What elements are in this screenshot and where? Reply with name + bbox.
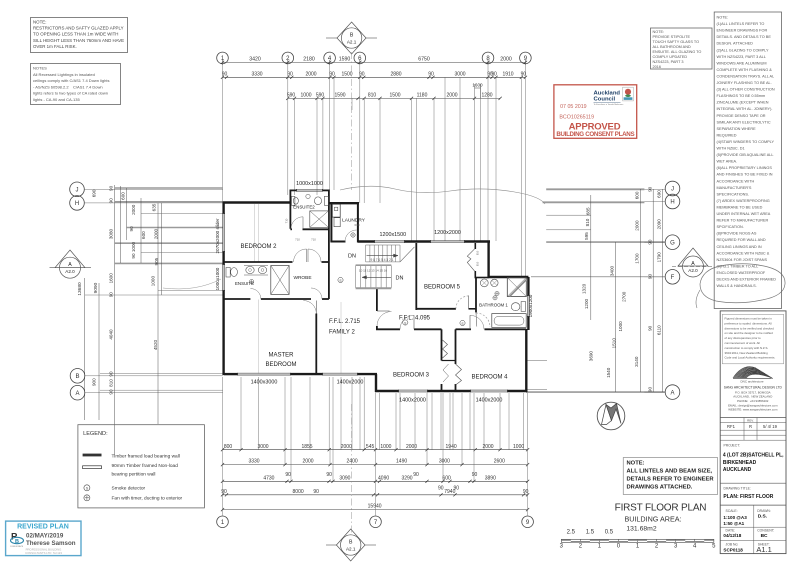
revised plan stamp [6,521,81,556]
wall bottom bedroom4 bedroom3 [376,390,399,392]
bottom dimension row 3 [223,480,528,482]
svg-text:COMPLETE WITH FLASHING &: COMPLETE WITH FLASHING & [717,68,773,72]
svg-text:800: 800 [224,444,233,450]
ensuite2 cabinet [324,196,328,205]
svg-text:1900x1200: 1900x1200 [528,294,533,317]
window 1400x3000 master [237,372,291,374]
interior wall wrobe right [328,242,330,300]
grid bubble B left [70,369,85,384]
svg-text:810: 810 [368,93,377,99]
svg-text:DATE:: DATE: [726,529,736,533]
svg-text:WET AREA.: WET AREA. [717,160,738,164]
svg-text:Figured dimensions must be tak: Figured dimensions must be taken in [725,317,773,321]
laundry wall right [357,203,359,242]
svg-text:NOTES: NOTES [33,66,47,71]
grid bubble H right [665,194,680,209]
svg-text:9090: 9090 [93,282,99,293]
laundry fan [351,233,355,237]
window 1400x2000 bedroom4 [470,389,508,391]
svg-text:3000: 3000 [257,444,268,450]
interior wall ensuite wrobe bottom [224,298,251,300]
note box lintels list [714,12,781,309]
svg-text:preference to scaled dimensio: preference to scaled dimensions. All [725,321,772,325]
svg-text:2600: 2600 [494,459,505,465]
svg-text:SANG ARCHITECTURAL DESIGN LTD: SANG ARCHITECTURAL DESIGN LTD [724,386,783,390]
laundry tub [332,204,340,217]
svg-text:(5)PROVIDE GIB AQUALINE ALL: (5)PROVIDE GIB AQUALINE ALL [717,153,774,157]
svg-text:SPCIFICATION.: SPCIFICATION. [717,225,744,229]
exterior wall right lower [525,329,527,392]
exterior wall top bedroom2 [223,201,291,203]
svg-text:595: 595 [584,232,589,240]
exterior wall right upper [487,242,489,279]
stair landing edge [356,287,392,289]
svg-text:ACCORDANCE WITH: ACCORDANCE WITH [717,179,755,183]
svg-text:90: 90 [287,71,293,77]
svg-text:90: 90 [647,239,652,245]
svg-text:of any discrepancies prior to: of any discrepancies prior to [725,336,762,340]
svg-text:NOTE:: NOTE: [653,30,665,34]
svg-text:1400x2000: 1400x2000 [337,380,364,386]
svg-text:CONDENSATION TRAYS. ALL AL: CONDENSATION TRAYS. ALL AL [717,74,775,78]
svg-text:690: 690 [92,189,97,197]
svg-text:ENSUITE. ALL GLAZING TO: ENSUITE. ALL GLAZING TO [653,50,702,54]
svg-text:3140: 3140 [634,356,639,367]
svg-text:1200x1500: 1200x1500 [379,232,406,238]
wall step family to bedroom3 [375,374,377,392]
laundry bottom wall [330,241,345,243]
svg-text:JOB No:: JOB No: [726,543,739,547]
svg-text:1000x1000: 1000x1000 [215,267,220,290]
svg-text:1320: 1320 [582,283,587,294]
svg-text:810: 810 [109,379,114,387]
svg-text:NZS4223, PART 3: NZS4223, PART 3 [653,60,684,64]
note box stopolite glass [651,28,713,69]
svg-text:1400x3000: 1400x3000 [251,380,278,386]
svg-text:WROBE: WROBE [293,275,311,281]
svg-text:2.5: 2.5 [567,530,576,536]
laundry door arc [345,230,357,242]
svg-text:B: B [15,539,19,545]
window 2070x2000 slider left wall [222,213,224,252]
svg-text:610: 610 [475,250,479,255]
svg-text:3330: 3330 [251,71,262,77]
svg-text:4090: 4090 [378,475,389,481]
svg-text:2400: 2400 [347,459,358,465]
ensuite2 door arc [291,217,303,229]
svg-text:90: 90 [109,371,114,377]
svg-text:600: 600 [442,475,451,481]
svg-text:DNC architecture: DNC architecture [740,380,763,384]
svg-text:BEDROOM 4: BEDROOM 4 [471,375,508,381]
svg-text:600: 600 [141,231,146,239]
svg-text:RESTRICTORS AND SAFTY GLAZED A: RESTRICTORS AND SAFTY GLAZED APPLY [33,26,124,31]
ensuite2 toilet [292,196,295,205]
section marker A/A2.0 left [50,250,92,278]
svg-text:1280: 1280 [481,93,492,99]
section marker B/A2.1 bottom [326,529,376,561]
svg-text:635: 635 [152,203,157,211]
svg-text:Council: Council [594,97,616,103]
svg-text:REVISED PLAN: REVISED PLAN [17,524,69,531]
svg-text:PROJECT:: PROJECT: [724,444,740,448]
top dimension row 3 [288,97,500,99]
svg-text:90: 90 [647,274,652,280]
bedroom3 door arc [400,315,414,329]
svg-text:3690: 3690 [588,351,593,362]
svg-text:DETAILS. AND DETAILS TO BE: DETAILS. AND DETAILS TO BE [717,35,772,39]
note box recessed lightings [31,64,121,105]
svg-text:ENSUITE2: ENSUITE2 [293,205,315,210]
svg-text:90: 90 [454,485,460,491]
svg-text:590: 590 [287,93,296,99]
svg-text:1500: 1500 [389,93,400,99]
svg-text:685: 685 [586,207,591,215]
svg-text:A2.0: A2.0 [688,268,698,273]
revision table [720,417,786,419]
legend smoke detector symbol [84,485,90,491]
ensuite door arc [250,289,261,300]
svg-text:3890: 3890 [485,475,496,481]
svg-text:3330: 3330 [248,459,259,465]
svg-text:90mm Timber framed Non-load: 90mm Timber framed Non-load [112,463,179,469]
ensuite toilet [226,268,230,278]
closet bifold doors top [443,340,448,358]
svg-text:3420: 3420 [249,57,261,63]
grid bubble 8 [482,52,494,64]
svg-text:WITH NZBC. D1: WITH NZBC. D1 [717,147,745,151]
svg-text:1000: 1000 [618,321,623,332]
svg-text:690: 690 [657,190,662,198]
svg-text:TOUCH SAFTY GLASS TO: TOUCH SAFTY GLASS TO [653,40,700,44]
svg-text:4040: 4040 [109,329,114,340]
grid bubble J left [70,182,85,197]
revision cloud notes ellipse [700,264,785,303]
svg-text:90: 90 [109,292,114,298]
bottom grid bubbles [217,516,229,528]
svg-text:BIRKENHEAD: BIRKENHEAD [723,460,757,466]
title block disclaimer [722,314,783,364]
left dimension chains [84,278,86,420]
svg-text:F: F [671,275,675,281]
legend fan symbol [84,495,90,501]
svg-text:1600: 1600 [472,83,483,88]
svg-text:COMPLY UPDATED: COMPLY UPDATED [653,55,688,59]
bathroom1 basin pair [480,279,488,287]
svg-text:2880: 2880 [390,71,401,77]
svg-text:REQUIRED FOR WALL AND: REQUIRED FOR WALL AND [717,238,766,242]
svg-text:D.S.: D.S. [758,513,767,519]
svg-text:BEDROOM 2: BEDROOM 2 [240,244,277,250]
svg-text:SILL HEIGHT LESS THAN 760mm AN: SILL HEIGHT LESS THAN 760mm AND HAVE [33,38,124,43]
svg-text:4730: 4730 [263,475,274,481]
svg-text:B: B [350,33,354,39]
svg-text:F.F.L. 4.095: F.F.L. 4.095 [399,316,431,322]
svg-text:590: 590 [316,93,325,99]
svg-text:Auckland: Auckland [594,90,621,96]
svg-text:BEDROOM 5: BEDROOM 5 [424,285,461,291]
svg-text:A2.0: A2.0 [65,269,75,274]
svg-text:PLAN: FIRST FLOOR: PLAN: FIRST FLOOR [723,494,773,500]
exterior wall right bathroom [527,277,529,296]
svg-text:REFER TO MANUFACTURER: REFER TO MANUFACTURER [717,219,769,223]
svg-text:1600: 1600 [109,273,114,284]
svg-text:1790: 1790 [657,252,662,263]
svg-text:bearing pertition wall: bearing pertition wall [112,471,156,477]
svg-text:90: 90 [329,71,335,77]
bedroom5 door arc [456,296,469,309]
closet wall left [441,329,443,360]
architect logo swoosh [733,367,773,379]
left deck gray lines [115,187,223,189]
svg-text:WALLS & HANDRAILS.: WALLS & HANDRAILS. [717,284,757,288]
window 1200x2000 top [430,240,465,242]
svg-text:6750: 6750 [418,57,430,63]
svg-text:3604:2011, New Zealand Buildin: 3604:2011, New Zealand Building [725,351,769,355]
section marker A/A2.0 right [672,248,714,277]
stair upper arrow [367,255,399,257]
svg-text:1000: 1000 [380,444,391,450]
svg-text:1855: 1855 [301,444,312,450]
svg-text:lights - CA-90 and CA-135: lights - CA-90 and CA-135 [33,97,80,102]
ensuite2 wall left [289,190,291,229]
svg-text:A: A [75,391,79,397]
svg-text:1000: 1000 [300,93,311,99]
svg-text:2700: 2700 [622,291,627,302]
svg-text:J: J [671,187,674,193]
svg-text:1200x2000: 1200x2000 [434,230,461,236]
svg-text:(4)STAIR WINDERS TO COMPLY: (4)STAIR WINDERS TO COMPLY [717,140,775,144]
ensuite2 wall top with window 1000x1000 [290,189,297,191]
svg-text:BC: BC [761,533,768,539]
svg-text:02/MAY/2019: 02/MAY/2019 [26,533,64,540]
svg-text:4520: 4520 [153,339,158,350]
svg-text:A: A [670,390,674,396]
svg-text:1400x2000: 1400x2000 [399,398,426,404]
bathroom1 door leaf dashed [476,313,490,327]
bottom grid vertical lines [222,377,224,450]
svg-text:Therese Samson: Therese Samson [26,540,76,547]
top dimension row 1 [223,61,526,63]
svg-text:1:100 @A3: 1:100 @A3 [723,515,747,520]
svg-text:ceilings comply with C/AS1 7.4: ceilings comply with C/AS1 7.4 Down ligh… [33,78,109,83]
scale drawn section [753,505,755,553]
top grid vertical lines [222,62,224,203]
bedroom2 double doors [294,249,307,262]
grid bubble 6 [354,52,366,64]
svg-text:1590: 1590 [334,93,345,99]
legend non-load wall symbol [83,466,102,469]
svg-text:2090: 2090 [657,219,662,230]
interior wall bedroom5 bottom [416,308,456,310]
bottom dimension row 2 [223,464,528,466]
svg-text:LEGEND:: LEGEND: [83,431,108,437]
svg-text:90: 90 [472,472,478,478]
svg-text:ENGINEER DRAWINGS FOR: ENGINEER DRAWINGS FOR [717,29,768,33]
svg-text:6110: 6110 [657,325,662,335]
svg-text:1000: 1000 [150,276,155,287]
svg-text:NOTE:: NOTE: [717,16,729,20]
svg-text:AUCKLAND: AUCKLAND [723,467,752,473]
svg-text:1940: 1940 [446,444,457,450]
svg-text:F.F.L. 2.715: F.F.L. 2.715 [329,319,361,325]
wall bottom master family [224,373,238,375]
svg-text:(6)ALL PROPRIETARY LININGS: (6)ALL PROPRIETARY LININGS [717,166,773,170]
svg-text:90: 90 [109,198,114,204]
revision cloud laundry [340,186,545,204]
svg-text:INTEGRAL WITH AL. JOINERY).: INTEGRAL WITH AL. JOINERY). [717,107,773,111]
grid bubble J right [665,181,680,196]
bedroom5 wardrobe bifold [467,249,475,272]
ensuite2 wall right [328,190,330,242]
ensuite2 shower [310,211,329,227]
svg-text:UNDER INTERNAL WET AREA: UNDER INTERNAL WET AREA [717,212,771,216]
svg-text:131.68m2: 131.68m2 [626,526,656,533]
svg-text:2070x2000 slider: 2070x2000 slider [215,218,220,253]
grid bubble 1 [217,52,229,64]
bathroom1 fan [495,291,499,295]
note box restrictors [31,18,128,53]
svg-text:1000x1000: 1000x1000 [296,181,323,187]
svg-text:B: B [75,374,79,380]
sub dim 1600 [475,87,481,89]
ensuite basin 2 [258,266,266,273]
svg-text:dimensions to be verified and: dimensions to be verified and checked [725,326,775,330]
svg-text:04/12/18: 04/12/18 [723,533,741,538]
svg-text:8000: 8000 [293,489,304,495]
svg-text:MEMBRANE TO BE USED: MEMBRANE TO BE USED [717,205,763,209]
svg-text:DRAWING TITLE:: DRAWING TITLE: [724,486,751,490]
svg-text:DECKS AND EXTERIOR FRAMED: DECKS AND EXTERIOR FRAMED [717,278,777,282]
svg-text:OVER 1m FALL RISK.: OVER 1m FALL RISK. [33,44,77,49]
svg-text:lights refers to two types of: lights refers to two types of CA rated d… [33,91,108,96]
svg-text:All Recessed Lightings in insu: All Recessed Lightings in insulated [33,72,95,77]
svg-text:810: 810 [585,218,590,226]
svg-text:A2.1: A2.1 [347,40,357,45]
svg-text:3400: 3400 [610,265,615,276]
ensuite fan [249,279,253,283]
svg-text:90: 90 [438,485,444,491]
svg-text:FLASHINGS TO BE 0.55mm: FLASHINGS TO BE 0.55mm [717,94,766,98]
right deck outline lines [546,188,644,190]
north arrow [597,402,625,430]
svg-text:SCP0118: SCP0118 [723,548,743,553]
svg-text:710: 710 [311,238,316,242]
interior wall stair left lower [376,289,378,312]
svg-text:Fan with timer, ducting to ext: Fan with timer, ducting to exterior [112,496,183,502]
exterior wall left [222,203,224,215]
bottom dimension row 4 [223,494,528,496]
svg-text:545: 545 [366,444,375,450]
svg-text:710: 710 [285,218,289,223]
stair break diagonal [400,247,414,262]
svg-text:A: A [68,262,72,268]
svg-text:SCALE:: SCALE: [726,509,738,513]
grid bubble H left [70,196,85,211]
center dash line to bottom marker [351,404,353,533]
svg-text:90: 90 [647,387,652,393]
svg-text:07 05 2019: 07 05 2019 [560,104,587,110]
svg-text:DRAWN:: DRAWN: [757,509,771,513]
bedroom4 door arc [470,315,484,329]
closet shelf [442,360,456,362]
interior wall stair right [415,243,417,310]
svg-text:2000: 2000 [302,459,313,465]
stair upper flight treads [366,245,400,262]
svg-text:ENCLOSED WATERPROOF: ENCLOSED WATERPROOF [717,271,766,275]
svg-text:NZS3604 FOR JOIST SPANS: NZS3604 FOR JOIST SPANS [717,258,768,262]
svg-text:CONSENT:: CONSENT: [757,529,774,533]
window 1900x1200 right [526,295,528,317]
svg-text:WEBSITE: www.sangarchitecture.: WEBSITE: www.sangarchitecture.com [728,408,778,412]
svg-text:(2)ALL GLAZING TO COMPLY: (2)ALL GLAZING TO COMPLY [717,48,769,52]
svg-text:1.5: 1.5 [586,530,595,536]
wall top laundry [329,202,359,204]
svg-text:ZINCALUME (EXCEPT WHEN: ZINCALUME (EXCEPT WHEN [717,101,769,105]
svg-text:(8)PROVIDE NOGS AS: (8)PROVIDE NOGS AS [717,232,757,236]
ensuite counter [244,265,268,267]
svg-text:1400x2000: 1400x2000 [476,398,503,404]
interior wall hall bedroom3 top [376,328,400,330]
legend load bearing wall symbol [83,454,102,457]
svg-text:3000: 3000 [454,71,465,77]
svg-text:NOTE:: NOTE: [627,461,645,467]
master door arc [303,301,316,314]
svg-text:RF1: RF1 [727,424,736,429]
ensuite2 smoke detector [306,194,310,198]
svg-text:2180: 2180 [303,57,315,63]
svg-text:(3) ALL OTHER CONSTRUCTION: (3) ALL OTHER CONSTRUCTION [717,88,775,92]
svg-text:1700: 1700 [635,253,640,264]
svg-text:3080: 3080 [109,228,114,239]
grid bubble A left [70,385,85,400]
hall smoke detector [338,277,343,282]
svg-text:90: 90 [647,325,652,331]
svg-text:DN: DN [396,276,404,282]
svg-text:BUILDING CONSENT PLANS: BUILDING CONSENT PLANS [556,131,634,138]
svg-text:3290: 3290 [401,475,412,481]
svg-text:2000: 2000 [305,71,316,77]
interior wall bathroom bottom [485,328,527,330]
window 1400x2000 bedroom3 [398,389,428,391]
svg-text:commencement of work. All: commencement of work. All [725,341,761,345]
svg-text:1910: 1910 [502,71,513,77]
svg-text:R: R [749,424,752,429]
svg-text:90: 90 [109,389,114,395]
svg-text:AND FINISHES TO BE FIXED IN: AND FINISHES TO BE FIXED IN [717,173,773,177]
svg-text:DN: DN [348,254,356,260]
svg-text:90: 90 [647,186,652,192]
svg-text:A: A [691,261,695,267]
svg-text:J: J [76,188,79,194]
bottom dimension row 1 [223,449,528,451]
svg-text:600: 600 [121,192,126,200]
svg-text:90: 90 [491,71,497,77]
svg-text:15940: 15940 [368,504,382,510]
svg-text:5/ 4/ 19: 5/ 4/ 19 [763,424,778,429]
svg-text:2000: 2000 [635,220,640,231]
svg-text:90: 90 [285,472,291,478]
svg-text:BCO10265119: BCO10265119 [559,115,594,121]
svg-text:BEDROOM 3: BEDROOM 3 [393,373,430,379]
svg-text:90: 90 [131,253,136,259]
svg-text:1540: 1540 [606,367,611,378]
svg-text:1490: 1490 [396,459,407,465]
stair lower arrow [362,276,391,278]
svg-text:1000: 1000 [513,444,524,450]
svg-text:905: 905 [154,257,159,265]
interior wall below bedroom2 [224,261,293,263]
